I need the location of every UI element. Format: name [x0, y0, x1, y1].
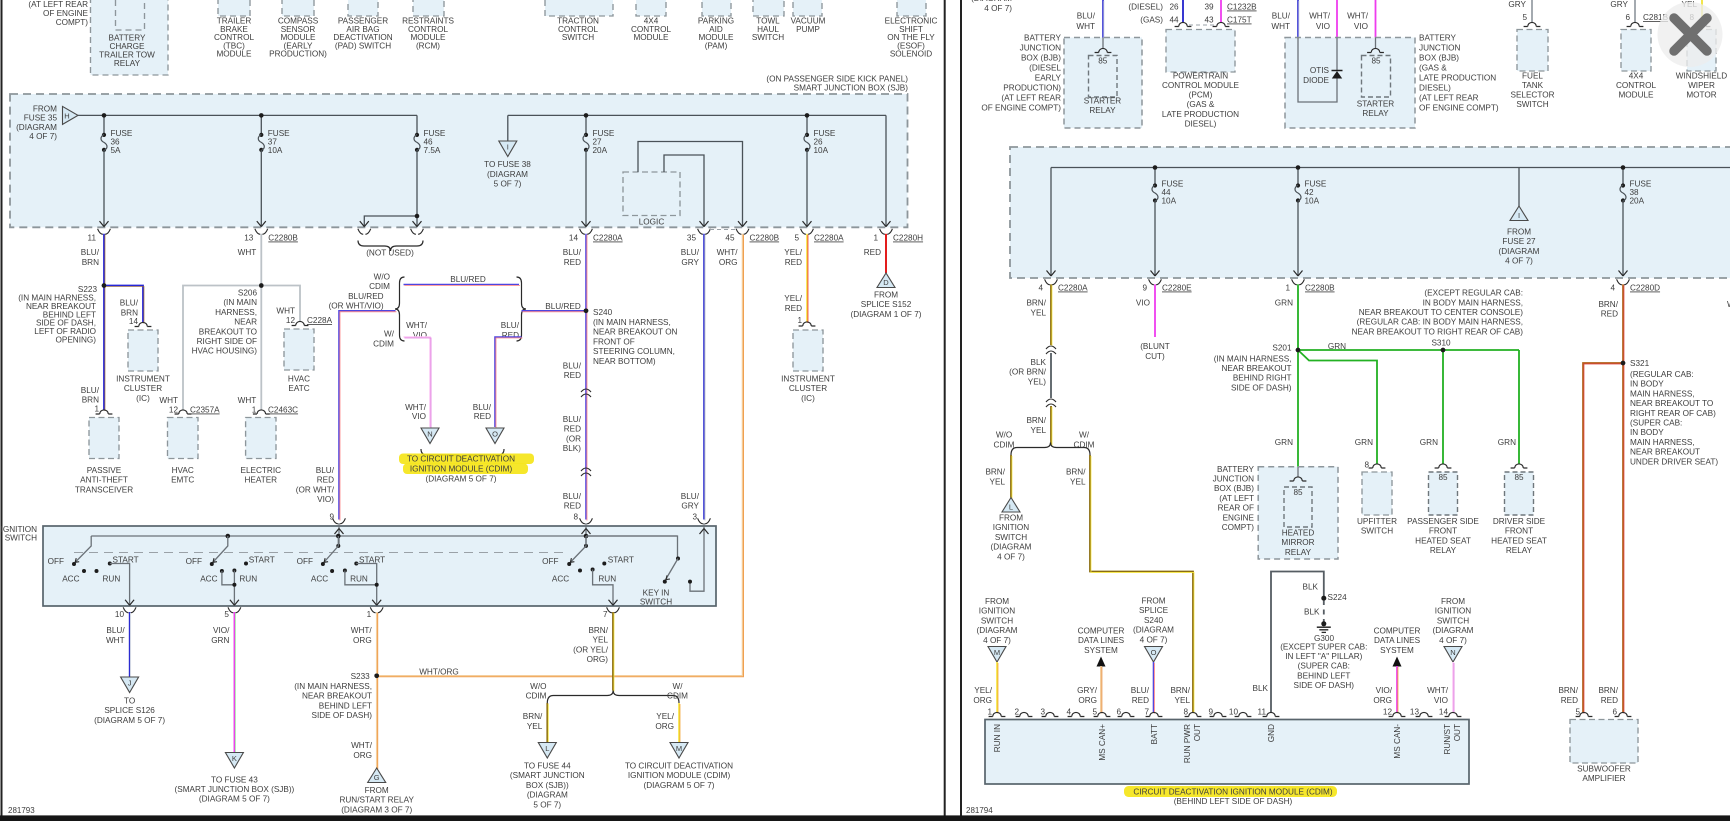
fuse F27 20A	[584, 133, 588, 137]
svg-text:(SUPER CAB:: (SUPER CAB:	[1630, 419, 1682, 428]
svg-text:(IC): (IC)	[136, 394, 150, 403]
svg-text:RED: RED	[564, 258, 581, 267]
svg-text:(DIAGRAM 5 OF 7): (DIAGRAM 5 OF 7)	[644, 781, 715, 790]
svg-text:BOX (BJB): BOX (BJB)	[1214, 484, 1254, 493]
svg-text:(BLUNT: (BLUNT	[1140, 342, 1170, 351]
svg-text:GRN: GRN	[1420, 438, 1438, 447]
svg-text:20A: 20A	[1630, 197, 1645, 206]
svg-text:IGNITION: IGNITION	[979, 607, 1015, 616]
svg-text:HEATED SEAT: HEATED SEAT	[1491, 536, 1547, 545]
svg-text:GRY: GRY	[1508, 0, 1526, 9]
svg-text:(IN MAIN HARNESS,: (IN MAIN HARNESS,	[593, 318, 671, 327]
wire fuse42 down	[1297, 201, 1299, 277]
wire WHT branch to HVAC EMTC	[183, 286, 261, 411]
svg-text:ACC: ACC	[311, 575, 328, 584]
wire BRN/YEL pin4 down	[1050, 284, 1052, 345]
svg-text:(ON PASSENGER SIDE KICK PANEL): (ON PASSENGER SIDE KICK PANEL)	[766, 75, 908, 84]
svg-text:FUSE 35: FUSE 35	[24, 114, 58, 123]
node splice S206	[259, 283, 264, 288]
mechanical linkage dashed line	[74, 552, 563, 554]
svg-text:(PCM): (PCM)	[1189, 91, 1213, 100]
switch A wiper	[74, 536, 91, 564]
svg-text:BATTERY: BATTERY	[1217, 465, 1255, 474]
svg-text:POWERTRAIN: POWERTRAIN	[1173, 71, 1228, 80]
svg-text:IGNITION MODULE (CDIM): IGNITION MODULE (CDIM)	[628, 771, 731, 780]
electric heater box	[246, 418, 276, 459]
svg-text:RED: RED	[1561, 696, 1578, 705]
svg-text:W/: W/	[384, 330, 395, 339]
wire PCM 39 VIO	[1220, 0, 1222, 23]
svg-text:START: START	[249, 556, 275, 565]
svg-text:HVAC: HVAC	[172, 466, 194, 475]
svg-text:10A: 10A	[1305, 197, 1320, 206]
wire GRY to fuel tank selector switch	[1531, 0, 1533, 23]
wire BLU/RED brace to S240	[522, 310, 587, 312]
svg-text:SPLICE S126: SPLICE S126	[104, 706, 155, 715]
svg-text:H: H	[64, 111, 69, 120]
svg-text:WHT/: WHT/	[1347, 12, 1369, 21]
inline connector break lower	[581, 468, 591, 471]
svg-text:RELAY: RELAY	[1285, 548, 1312, 557]
svg-text:(PAM): (PAM)	[705, 41, 728, 50]
svg-text:GRN: GRN	[1275, 299, 1293, 308]
fuse F36 5A	[102, 133, 106, 137]
svg-text:BLU/: BLU/	[563, 362, 582, 371]
svg-text:45: 45	[725, 234, 735, 243]
connector pin 14 C2280A	[580, 229, 585, 235]
ignition switch box	[43, 526, 716, 606]
svg-text:SOLENOID: SOLENOID	[890, 50, 932, 59]
module box vacuum pump	[793, 0, 822, 16]
svg-text:IN BODY: IN BODY	[1630, 380, 1664, 389]
svg-text:GND: GND	[1267, 724, 1276, 742]
svg-text:(IN MAIN: (IN MAIN	[223, 298, 257, 307]
svg-text:IN BODY MAIN HARNESS,: IN BODY MAIN HARNESS,	[1423, 298, 1523, 307]
svg-text:BLU/: BLU/	[563, 248, 582, 257]
wire WHT/VIO w/ cdim to triangle N	[404, 337, 431, 427]
svg-text:COMPUTER: COMPUTER	[1374, 627, 1421, 636]
svg-text:BLU/: BLU/	[563, 492, 582, 501]
svg-text:VIO: VIO	[412, 412, 426, 421]
svg-text:M: M	[676, 744, 682, 753]
svg-text:HVAC HOUSING): HVAC HOUSING)	[192, 347, 258, 356]
svg-text:HVAC: HVAC	[288, 375, 310, 384]
svg-text:RUN/START RELAY: RUN/START RELAY	[339, 796, 414, 805]
svg-text:SMART JUNCTION BOX (SJB): SMART JUNCTION BOX (SJB)	[794, 84, 909, 93]
svg-text:START: START	[608, 556, 634, 565]
svg-text:SPLICE S152: SPLICE S152	[861, 300, 912, 309]
svg-text:85: 85	[1438, 473, 1448, 482]
connector transceiver pin 1	[96, 410, 113, 414]
svg-text:RUN: RUN	[350, 575, 368, 584]
module box 4x4 control module	[636, 0, 666, 16]
connector CDIM pin 13	[1416, 712, 1433, 716]
svg-text:MAIN HARNESS,: MAIN HARNESS,	[1630, 438, 1695, 447]
svg-text:CDIM: CDIM	[526, 692, 547, 701]
wire BRN/YEL to fuse 44	[546, 703, 548, 743]
subwoofer amplifier box	[1570, 720, 1638, 764]
svg-text:SELECTOR: SELECTOR	[1511, 91, 1555, 100]
svg-text:1: 1	[1285, 284, 1290, 293]
svg-text:(DIAGRAM: (DIAGRAM	[1499, 247, 1540, 256]
brace not used	[358, 241, 423, 252]
svg-text:(DIAGRAM: (DIAGRAM	[991, 543, 1032, 552]
svg-text:GRY/: GRY/	[1077, 686, 1098, 695]
svg-text:UPFITTER: UPFITTER	[1357, 517, 1397, 526]
wire GRN elbow to upfitter	[1298, 350, 1377, 464]
junction dots repaint	[102, 283, 107, 288]
svg-text:(DIAGRAM: (DIAGRAM	[971, 0, 1012, 3]
svg-text:3: 3	[1040, 708, 1045, 717]
svg-text:MAIN HARNESS,: MAIN HARNESS,	[1630, 389, 1695, 398]
node junction fuse27 tap	[584, 113, 589, 118]
svg-text:EMTC: EMTC	[171, 476, 194, 485]
svg-text:RED: RED	[474, 412, 491, 421]
svg-text:CONTROL: CONTROL	[1616, 81, 1656, 90]
node splice S233	[374, 674, 379, 679]
svg-text:C2280A: C2280A	[1058, 284, 1088, 293]
svg-text:5A: 5A	[111, 146, 122, 155]
connector CDIM pin 3	[1042, 712, 1059, 716]
svg-text:UNDER DRIVER SEAT): UNDER DRIVER SEAT)	[1630, 457, 1718, 466]
connector pin 11	[98, 229, 103, 235]
svg-text:N: N	[1450, 648, 1455, 657]
svg-text:BOX (SJB)): BOX (SJB))	[526, 781, 569, 790]
svg-text:S321: S321	[1630, 359, 1650, 368]
fuse F44 10A	[1153, 183, 1157, 187]
svg-text:YEL: YEL	[1070, 478, 1086, 487]
triangle O to CDIM	[486, 428, 504, 444]
svg-text:5: 5	[224, 610, 229, 619]
svg-text:44: 44	[1169, 16, 1179, 25]
wire BLK dashed to ground	[1323, 600, 1325, 622]
switch B jumper and output	[222, 571, 235, 606]
svg-text:OFF: OFF	[48, 557, 64, 566]
triangle G from run/start relay	[368, 768, 386, 783]
svg-text:NEAR BREAKOUT TO CENTER CONSOL: NEAR BREAKOUT TO CENTER CONSOLE)	[1359, 308, 1524, 317]
svg-text:WHT: WHT	[276, 307, 295, 316]
svg-text:CDIM: CDIM	[667, 692, 688, 701]
svg-text:1: 1	[94, 405, 99, 414]
svg-text:WHT/: WHT/	[405, 403, 427, 412]
left page border line left	[1, 0, 3, 816]
node junction fuse42 tap	[1296, 165, 1301, 170]
connector pin 1 C2280B right	[1292, 279, 1297, 285]
svg-text:14: 14	[129, 317, 139, 326]
svg-text:O: O	[1151, 648, 1157, 657]
svg-text:CONTROL MODULE: CONTROL MODULE	[1162, 81, 1240, 90]
connector bracket 35-45	[710, 229, 736, 231]
svg-text:YEL: YEL	[527, 722, 543, 731]
svg-text:(AT LEFT REAR: (AT LEFT REAR	[1419, 94, 1479, 103]
svg-text:BLU/: BLU/	[1131, 686, 1150, 695]
svg-text:FROM: FROM	[1441, 597, 1465, 606]
battery junction box at left rear	[1258, 467, 1338, 559]
wire GRY/ORG to CDIM pin 5	[1100, 666, 1102, 713]
svg-text:S233: S233	[351, 672, 371, 681]
connector pin 9 C2280E	[1149, 279, 1154, 285]
svg-text:BOX (BJB): BOX (BJB)	[1419, 54, 1459, 63]
svg-text:C2463C: C2463C	[268, 406, 298, 415]
svg-text:5: 5	[794, 234, 799, 243]
svg-text:C2280B: C2280B	[268, 234, 298, 243]
node splice S240	[584, 309, 589, 314]
svg-text:BEHIND LEFT: BEHIND LEFT	[1297, 671, 1350, 680]
svg-text:FRONT: FRONT	[1429, 527, 1457, 536]
svg-text:NEAR BREAKOUT: NEAR BREAKOUT	[1630, 448, 1700, 457]
svg-text:C2280A: C2280A	[814, 234, 844, 243]
svg-text:BRN/: BRN/	[523, 712, 543, 721]
wire BLU/BRN branch to instrument cluster	[104, 286, 143, 323]
svg-text:IGNITION MODULE (CDIM): IGNITION MODULE (CDIM)	[410, 465, 513, 474]
wire BRN/YEL to triangle L2	[1010, 455, 1012, 498]
connector fuel tank selector pin 5	[1524, 22, 1541, 26]
svg-text:GRY: GRY	[681, 258, 699, 267]
instrument cluster box	[128, 330, 158, 371]
svg-text:85: 85	[1098, 57, 1108, 66]
svg-text:RIGHT SIDE OF: RIGHT SIDE OF	[197, 337, 257, 346]
svg-text:S240: S240	[1144, 616, 1164, 625]
svg-text:NEAR BREAKOUT: NEAR BREAKOUT	[1221, 364, 1291, 373]
svg-text:ENGINE: ENGINE	[1223, 513, 1255, 522]
svg-text:FUEL: FUEL	[1522, 71, 1543, 80]
upfitter switch box	[1362, 472, 1392, 515]
connector ignition pin 5	[228, 607, 233, 613]
connector pin 1 C2280H	[880, 229, 885, 235]
wire BRN/YEL elbow to CDIM pin 8	[1090, 455, 1193, 713]
svg-text:5 OF 7): 5 OF 7)	[533, 800, 561, 809]
svg-text:20A: 20A	[593, 146, 608, 155]
connector not used stub B	[411, 229, 416, 235]
svg-text:43: 43	[1204, 16, 1214, 25]
svg-text:CDIM: CDIM	[369, 282, 390, 291]
svg-text:VIO: VIO	[413, 331, 427, 340]
connector CDIM pin 9	[1210, 712, 1227, 716]
triangle I2 from fuse 27	[1510, 206, 1528, 221]
fuse F38 20A	[1621, 183, 1625, 187]
svg-text:GRY: GRY	[681, 502, 699, 511]
triangle L to fuse 44	[538, 743, 556, 759]
svg-text:WIPER: WIPER	[1688, 81, 1715, 90]
wire WHT/VIO to starter relay 2	[1375, 0, 1377, 38]
wire YEL to wiper motor	[1701, 0, 1703, 23]
wire fuse36 down to pin 11	[103, 150, 105, 227]
node junction fuse38 tap	[1621, 165, 1626, 170]
svg-text:RED: RED	[1132, 696, 1149, 705]
battery charge trailer tow relay coil box	[116, 0, 145, 30]
svg-text:4 OF 7): 4 OF 7)	[1505, 256, 1533, 265]
wire BLU/RED option to triangle O	[495, 337, 522, 427]
svg-text:BRN/: BRN/	[588, 626, 608, 635]
fuse F42 10A	[1296, 183, 1300, 187]
svg-text:WHT/: WHT/	[351, 741, 373, 750]
svg-text:JUNCTION: JUNCTION	[1020, 44, 1061, 53]
svg-text:SWITCH: SWITCH	[981, 616, 1013, 625]
connector upfitter switch	[1369, 464, 1386, 468]
svg-text:(DIAGRAM: (DIAGRAM	[977, 626, 1018, 635]
svg-text:ACC: ACC	[62, 575, 79, 584]
inline connector break upper	[581, 389, 591, 392]
svg-text:RED: RED	[1601, 696, 1618, 705]
wire YEL/ORG to CDIM	[678, 703, 680, 743]
svg-text:(AT LEFT REAR: (AT LEFT REAR	[1001, 94, 1061, 103]
svg-text:STEERING COLUMN,: STEERING COLUMN,	[593, 347, 675, 356]
svg-text:BLU/: BLU/	[1077, 12, 1096, 21]
wire logic pin to 35	[664, 155, 704, 227]
svg-text:9: 9	[1208, 708, 1213, 717]
svg-text:SIDE OF DASH): SIDE OF DASH)	[311, 711, 372, 720]
svg-text:L: L	[545, 744, 549, 753]
key-in switch contacts	[663, 580, 667, 584]
fuse F46 7.5A	[415, 133, 419, 137]
module box compass sensor	[282, 0, 314, 16]
svg-text:(DIESEL: (DIESEL	[1029, 64, 1061, 73]
svg-text:10A: 10A	[268, 146, 283, 155]
svg-text:WHT/ORG: WHT/ORG	[419, 667, 459, 676]
svg-text:IN BODY: IN BODY	[1630, 428, 1664, 437]
connector HVAC EATC pin 12 C228A	[292, 321, 309, 325]
svg-text:4: 4	[1610, 284, 1615, 293]
svg-text:SWITCH: SWITCH	[995, 533, 1027, 542]
svg-text:STARTER: STARTER	[1084, 97, 1122, 106]
svg-text:C228A: C228A	[307, 316, 333, 325]
connector CDIM pin 2	[1016, 712, 1033, 716]
wire BLK CDIM gnd to G300	[1271, 572, 1324, 713]
svg-text:10A: 10A	[1162, 197, 1177, 206]
svg-text:(IN MAIN HARNESS,: (IN MAIN HARNESS,	[294, 682, 372, 691]
svg-text:5: 5	[1092, 708, 1097, 717]
svg-text:BATTERY: BATTERY	[1024, 34, 1062, 43]
svg-text:C2280H: C2280H	[893, 234, 923, 243]
svg-text:WHT/: WHT/	[1427, 686, 1449, 695]
wire bus fuse 36-46	[78, 115, 417, 133]
svg-text:ORG: ORG	[973, 696, 992, 705]
switch D output wire	[593, 570, 613, 606]
svg-text:YEL/: YEL/	[784, 294, 802, 303]
wire WHT/ORG pin45 down to S233 branch	[377, 234, 743, 676]
wire WHT/ORG to S233 and run/start relay	[376, 612, 378, 768]
svg-text:ORG: ORG	[719, 258, 738, 267]
wire bus fuse 27-26	[508, 115, 886, 226]
connector pin 4 C2280A right	[1045, 279, 1050, 285]
starter relay 2 85 box	[1362, 56, 1391, 98]
svg-text:CDIM: CDIM	[373, 339, 394, 348]
connector ignition pin 1	[370, 607, 375, 613]
svg-text:MODULE: MODULE	[216, 50, 252, 59]
svg-text:YEL/: YEL/	[656, 712, 674, 721]
otis diode symbol	[1332, 70, 1343, 72]
svg-text:(SUPER CAB:: (SUPER CAB:	[1298, 662, 1350, 671]
brace split w/o cdim	[547, 691, 679, 704]
svg-text:OF ENGINE COMPT): OF ENGINE COMPT)	[981, 104, 1061, 113]
passive anti-theft transceiver box	[89, 418, 119, 459]
svg-text:(EXCEPT SUPER CAB:: (EXCEPT SUPER CAB:	[1280, 642, 1367, 651]
svg-text:4: 4	[1038, 284, 1043, 293]
right SJB bus wire	[1051, 168, 1730, 277]
svg-text:C175T: C175T	[1227, 16, 1252, 25]
triangle K to fuse 43	[225, 753, 243, 769]
svg-text:MODULE: MODULE	[633, 33, 669, 42]
svg-text:BRN: BRN	[82, 396, 99, 405]
svg-text:14: 14	[1439, 708, 1449, 717]
svg-text:281794: 281794	[966, 806, 993, 815]
svg-text:J: J	[128, 679, 132, 688]
svg-text:BLU/RED: BLU/RED	[348, 292, 384, 301]
svg-text:DRIVER SIDE: DRIVER SIDE	[1493, 517, 1546, 526]
module box PAD switch	[348, 0, 378, 16]
connector CDIM pin 4	[1068, 712, 1085, 716]
svg-text:W/O: W/O	[996, 431, 1012, 440]
svg-text:BLU/: BLU/	[81, 248, 100, 257]
instrument cluster box 2	[793, 330, 823, 371]
connector pin 13 C2280B	[255, 229, 260, 235]
svg-text:85: 85	[1371, 57, 1381, 66]
svg-text:BLU/: BLU/	[120, 299, 139, 308]
fuse F37 10A	[259, 133, 263, 137]
svg-text:RED: RED	[564, 425, 581, 434]
svg-text:S201: S201	[1272, 344, 1292, 353]
svg-text:35: 35	[687, 234, 697, 243]
svg-text:4: 4	[1066, 708, 1071, 717]
node splice S310	[1441, 348, 1446, 353]
svg-text:VIO: VIO	[1136, 299, 1150, 308]
svg-text:JUNCTION: JUNCTION	[1213, 475, 1254, 484]
svg-text:VIO: VIO	[1434, 696, 1448, 705]
svg-text:WHT: WHT	[238, 248, 257, 257]
wire logic pin to 45	[638, 142, 743, 227]
connector PCM right	[1213, 22, 1230, 26]
svg-text:5 OF 7): 5 OF 7)	[494, 180, 522, 189]
connector pin 45 C2280B	[736, 229, 741, 235]
svg-text:WHT/: WHT/	[1309, 12, 1331, 21]
svg-text:OUT: OUT	[1193, 724, 1202, 741]
svg-text:FROM: FROM	[1141, 597, 1165, 606]
right page border line left	[960, 0, 962, 816]
svg-text:BLU/RED: BLU/RED	[545, 302, 581, 311]
triangle L2 from ignition switch	[1002, 498, 1020, 513]
svg-text:SPLICE: SPLICE	[1139, 606, 1169, 615]
svg-text:10: 10	[1229, 708, 1239, 717]
wire VIO/GRN to fuse 43	[233, 612, 235, 753]
svg-text:TO CIRCUIT DEACTIVATION: TO CIRCUIT DEACTIVATION	[407, 455, 515, 464]
node junction fuse37 tap	[259, 113, 264, 118]
svg-text:4 OF 7): 4 OF 7)	[983, 636, 1011, 645]
wire fuse38 down	[1622, 201, 1624, 277]
triangle H from fuse 35	[63, 106, 79, 124]
highlight yellow CDIM label	[1124, 786, 1337, 797]
svg-text:(GAS &: (GAS &	[1187, 100, 1215, 109]
svg-text:S206: S206	[238, 289, 258, 298]
svg-text:RIGHT REAR OF CAB): RIGHT REAR OF CAB)	[1630, 409, 1716, 418]
svg-text:(SMART JUNCTION: (SMART JUNCTION	[510, 771, 585, 780]
svg-text:10A: 10A	[814, 146, 829, 155]
svg-text:4 OF 7): 4 OF 7)	[997, 552, 1025, 561]
svg-text:BLU/RED: BLU/RED	[450, 275, 486, 284]
svg-text:(GAS): (GAS)	[1140, 16, 1163, 25]
svg-text:DIESEL): DIESEL)	[1185, 119, 1217, 128]
svg-text:TO CIRCUIT DEACTIVATION: TO CIRCUIT DEACTIVATION	[625, 762, 733, 771]
svg-text:SYSTEM: SYSTEM	[1380, 646, 1414, 655]
svg-text:ORG: ORG	[1078, 696, 1097, 705]
key-in switch wiper	[676, 557, 680, 561]
svg-text:TANK: TANK	[1522, 81, 1544, 90]
svg-text:12: 12	[286, 316, 296, 325]
svg-text:STARTER: STARTER	[1357, 100, 1395, 109]
connector not used stub A	[358, 229, 363, 235]
svg-text:CUT): CUT)	[1145, 352, 1165, 361]
svg-text:NEAR: NEAR	[234, 318, 257, 327]
svg-text:K: K	[232, 754, 237, 763]
